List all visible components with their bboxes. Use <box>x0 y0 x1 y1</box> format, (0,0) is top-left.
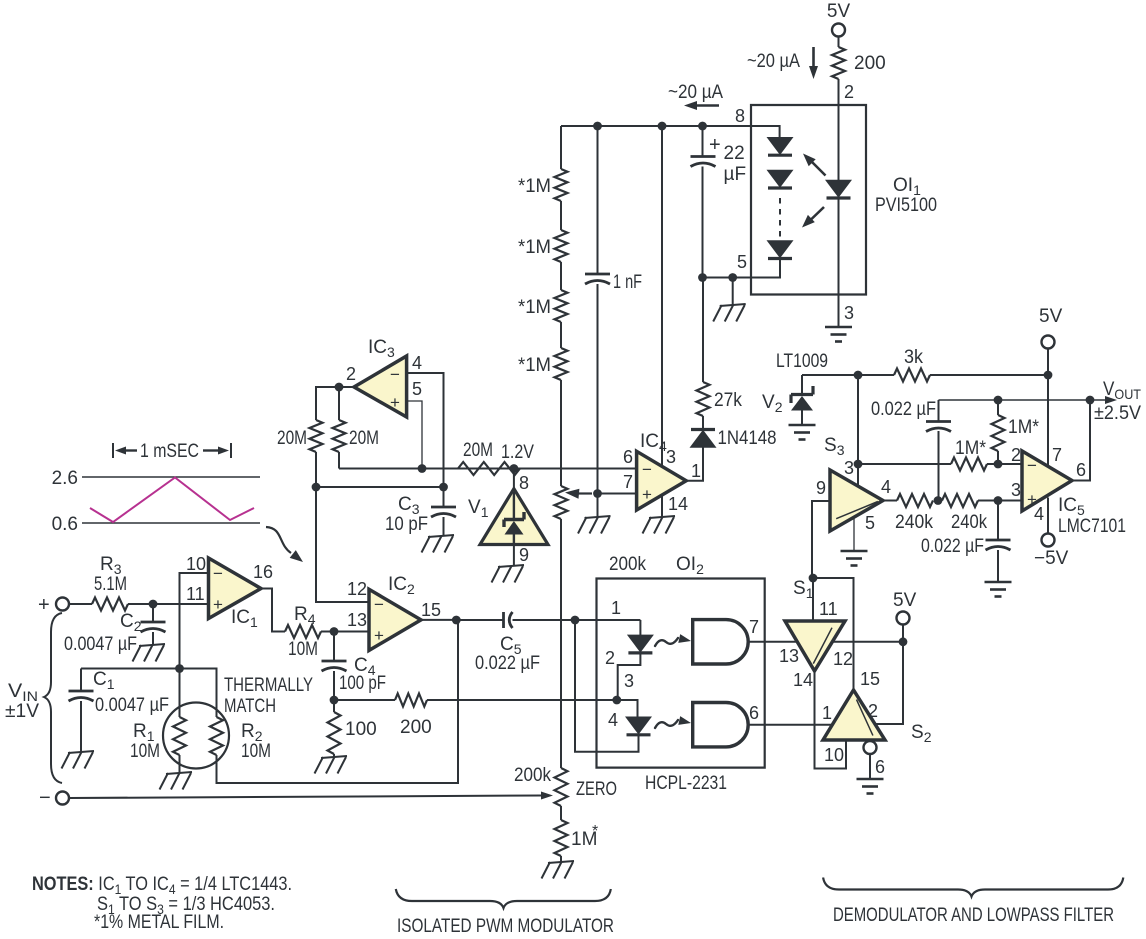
potentiometer 200k (triangle-wave trim) <box>555 486 593 519</box>
wire IC3 pin4 feedback <box>407 373 444 487</box>
resistor *1M (2nd) <box>518 230 568 262</box>
svg-text:+: + <box>709 134 721 156</box>
svg-text:−5V: −5V <box>1034 548 1069 569</box>
pin label 3 <box>624 671 634 691</box>
svg-text:0.022 µF: 0.022 µF <box>921 536 984 557</box>
wire C5 to OI2 pin 1 <box>513 619 641 621</box>
node Vout-1M* <box>994 396 1003 405</box>
svg-text:*1% METAL FILM.: *1% METAL FILM. <box>94 912 224 933</box>
svg-text:5: 5 <box>737 252 747 272</box>
pin label 5 <box>737 252 747 272</box>
resistor 3k <box>858 347 1048 382</box>
op-amp IC4 <box>623 431 686 510</box>
svg-text:4: 4 <box>881 477 891 497</box>
wire IC1 output to R4 <box>261 589 285 632</box>
svg-text:2: 2 <box>605 648 615 668</box>
wire pin5 node to 22uF node <box>703 277 733 279</box>
light arrow down-left <box>802 207 824 228</box>
resistor 1M* (vertical) <box>992 400 1040 464</box>
wire pot to ZERO pot <box>560 519 562 768</box>
input brace VIN <box>44 613 62 783</box>
wire diode to 27k <box>702 416 704 429</box>
ground (slant) at IC4 pin 14 <box>643 516 676 534</box>
ground (slant) at C1 <box>62 751 95 769</box>
ground (bar) at S3 pin 5 <box>841 551 868 566</box>
svg-text:+: + <box>213 595 223 614</box>
resistor 27k <box>697 382 743 416</box>
svg-text:16: 16 <box>253 562 273 582</box>
wire S1 pin 14 to S2 pin 10 <box>815 671 847 769</box>
capacitor C1 0.0047 µF <box>69 669 170 753</box>
node S3pin9-S1 <box>809 574 818 583</box>
label ISOLATED PWM MODULATOR <box>397 916 614 937</box>
label 200k (above OI2) <box>609 554 646 575</box>
svg-text:13: 13 <box>779 646 799 666</box>
wire top rail into OI1 (pin 8) to photo-stack <box>561 126 780 137</box>
svg-text:+: + <box>390 393 400 412</box>
label LT1009 <box>776 351 828 372</box>
wire node to C5 <box>456 619 503 621</box>
wire IC5 pin 4 to -5V <box>1034 498 1048 534</box>
svg-text:5: 5 <box>412 379 422 399</box>
wire V2 to 3k rail <box>802 374 858 376</box>
svg-text:5V: 5V <box>1039 306 1063 327</box>
svg-text:2: 2 <box>844 82 854 102</box>
svg-text:240k: 240k <box>895 512 933 533</box>
label DEMODULATOR AND LOWPASS FILTER <box>833 905 1114 926</box>
svg-text:7: 7 <box>1052 445 1062 465</box>
capacitor C5 0.022 µF <box>475 612 540 674</box>
svg-text:~20 µA: ~20 µA <box>668 82 723 103</box>
waveform lower bound 0.6 <box>52 514 260 535</box>
label THERMALLY MATCH <box>224 675 313 717</box>
inverter bubble S2 pin 6 <box>864 741 877 754</box>
diode 1N4148 <box>691 428 777 449</box>
svg-text:12: 12 <box>833 649 853 669</box>
optocoupler OI1 box <box>751 105 866 295</box>
wire − terminal to ZERO pot <box>69 792 553 800</box>
node 20M-left bottom <box>312 483 321 492</box>
svg-text:8: 8 <box>519 473 529 493</box>
wire 200-node to OI2 pin 3 <box>334 699 395 701</box>
power terminal 5V (IC5) <box>1039 306 1063 375</box>
resistor 1M* (horizontal) <box>951 438 987 471</box>
wire R4 to node <box>321 631 334 633</box>
svg-text:*: * <box>592 823 598 840</box>
svg-text:µF: µF <box>724 164 747 185</box>
svg-text:0.022 µF: 0.022 µF <box>475 653 540 674</box>
svg-text:1M*: 1M* <box>1008 417 1040 438</box>
ground (slant) at 100 <box>315 756 348 774</box>
svg-text:HCPL-2231: HCPL-2231 <box>645 773 727 794</box>
wire pin3 node to LED2 <box>617 700 638 717</box>
photovoltaic diode D3 in OI1 <box>768 241 792 259</box>
ground (slant) at C2 <box>133 644 166 662</box>
svg-text:15: 15 <box>421 600 441 620</box>
svg-text:9: 9 <box>519 545 529 565</box>
pin label 10 <box>824 745 844 765</box>
svg-text:10: 10 <box>824 745 844 765</box>
svg-text:3: 3 <box>844 458 854 478</box>
svg-text:200k: 200k <box>609 554 646 575</box>
triangle waveform (magenta) <box>90 478 254 523</box>
analog switch S1 (pins 11,13,12,14) <box>785 578 853 690</box>
wire S1 pin 11 <box>812 578 814 621</box>
svg-text:1M*: 1M* <box>955 438 987 459</box>
svg-text:4: 4 <box>412 353 422 373</box>
svg-text:14: 14 <box>668 494 688 514</box>
wire 1M* to ground <box>560 856 562 862</box>
svg-text:0.6: 0.6 <box>52 514 78 535</box>
svg-text:10 pF: 10 pF <box>385 514 428 535</box>
svg-text:3: 3 <box>844 303 854 323</box>
wire *1M chain to potentiometer <box>560 380 562 486</box>
svg-text:−: − <box>642 460 652 479</box>
node S3 pin 3 <box>844 458 862 478</box>
wire gate2 out to S2 pin 1 <box>748 703 833 725</box>
op-amp IC1 <box>186 554 273 630</box>
svg-text:5V: 5V <box>893 590 917 611</box>
resistor *1M (4th) <box>518 348 568 380</box>
wire 5V node down to S2 pin 2 <box>875 642 904 724</box>
node R3-C2 <box>149 600 158 609</box>
wire rail down-left corner to *1M chain <box>560 126 562 169</box>
current label ~20 µA with left arrow <box>668 82 723 110</box>
pin label 4 <box>608 710 618 730</box>
node 3k-S3 <box>854 371 863 380</box>
svg-text:−: − <box>390 365 400 384</box>
label OI2 <box>676 554 704 577</box>
svg-text:0.022 µF: 0.022 µF <box>871 399 936 420</box>
thermally-match circle <box>163 703 229 769</box>
curved arrow waveform to modulator <box>266 527 303 562</box>
wire wiper node to IC4 pin 7 <box>598 493 637 495</box>
node rail-22uF <box>698 122 707 131</box>
thermistor R1 10M <box>130 669 186 774</box>
led OI1 (pins 2-3) <box>827 105 851 295</box>
brace demodulator <box>823 878 1123 897</box>
wire R2 bottom feedback <box>217 620 459 783</box>
power terminal -5V <box>1034 534 1069 570</box>
wire 5V to resistor 200 <box>838 37 840 48</box>
input terminal − <box>39 787 69 809</box>
node R4-C4 (IC2 pin13) <box>330 627 339 636</box>
wire IC2 output to C5 <box>421 619 456 621</box>
svg-text:~20 µA: ~20 µA <box>747 51 800 72</box>
resistor 20M (IC3 feedback) <box>333 387 380 469</box>
node C3 top <box>439 483 448 492</box>
svg-text:1.2V: 1.2V <box>501 442 534 463</box>
svg-text:15: 15 <box>860 669 880 689</box>
resistor 20M (left) <box>277 420 323 452</box>
svg-text:7: 7 <box>749 617 759 637</box>
ground (slant) at R1 <box>160 772 193 790</box>
svg-text:9: 9 <box>816 478 826 498</box>
wire IC4 pin 14 to ground <box>662 494 688 517</box>
gate 2 (OI2 output, pin 6) <box>693 703 759 747</box>
capacitor 0.022 µF (top) <box>871 399 951 501</box>
node 240k junction <box>934 496 943 505</box>
node Vout-IC5out <box>1086 396 1095 405</box>
svg-text:100 pF: 100 pF <box>339 673 386 694</box>
svg-text:20M: 20M <box>349 428 379 449</box>
svg-text:3: 3 <box>666 447 676 467</box>
wire C1 top <box>81 668 180 670</box>
wire + terminal to R3 <box>69 603 92 605</box>
analog switch S2 (pins 15,1,2,10) <box>823 690 932 745</box>
svg-text:1 mSEC: 1 mSEC <box>140 441 199 462</box>
node IC2 out <box>452 616 461 625</box>
svg-text:MATCH: MATCH <box>224 696 276 717</box>
svg-text:*1M: *1M <box>518 355 551 376</box>
svg-text:±1V: ±1V <box>5 701 39 722</box>
node C4-100-200 <box>330 696 339 705</box>
label VIN ±1V <box>5 681 39 722</box>
wire IC4 pin 3 from rail <box>662 126 676 467</box>
power terminal 5V (switches) <box>893 590 917 642</box>
photovoltaic diode D1 in OI1 <box>768 138 792 156</box>
resistor *1M (1st) <box>518 169 568 201</box>
wire Vout line <box>939 396 1118 404</box>
svg-text:4: 4 <box>608 710 618 730</box>
svg-text:ZERO: ZERO <box>576 779 617 800</box>
svg-text:2.6: 2.6 <box>52 468 78 489</box>
op-amp IC5 <box>1011 445 1126 537</box>
wire node down to IC2 pin 12 <box>316 487 369 602</box>
ground (slant) at 1M* <box>542 861 575 879</box>
power terminal 5V (top, OI1 section) <box>827 1 851 37</box>
svg-text:*1M: *1M <box>518 297 551 318</box>
node IC3 output <box>335 383 344 392</box>
svg-text:22: 22 <box>724 143 745 164</box>
svg-text:10: 10 <box>186 554 206 574</box>
resistor *1M (3rd) <box>518 290 568 322</box>
wire S3 pin3 to 1M* <box>858 463 951 465</box>
svg-text:1N4148: 1N4148 <box>718 428 777 449</box>
wire node to R2 top <box>180 669 217 718</box>
svg-text:0.0047 µF: 0.0047 µF <box>95 695 169 716</box>
svg-text:*1M: *1M <box>518 176 551 197</box>
wire 200 to OI2 pin3 node <box>427 699 617 701</box>
svg-text:200: 200 <box>400 717 432 738</box>
node wiper-1nF <box>593 489 602 498</box>
wire node to IC2 pin 13 <box>334 631 369 633</box>
ground (bar) at bottom 0.022µF <box>985 582 1012 597</box>
wire S3 pin9 junction to S2 pin 15 <box>813 578 854 690</box>
resistor 200 <box>395 694 432 739</box>
svg-text:−: − <box>1027 456 1037 475</box>
op-amp IC3 (left-pointing) <box>346 337 422 417</box>
svg-text:ISOLATED PWM MODULATOR: ISOLATED PWM MODULATOR <box>397 916 614 937</box>
svg-text:5: 5 <box>865 513 875 533</box>
svg-text:PVI5100: PVI5100 <box>875 195 937 216</box>
wire S3 pin4 to 240k <box>883 500 897 502</box>
svg-text:240k: 240k <box>951 512 987 533</box>
svg-text:LT1009: LT1009 <box>776 351 828 372</box>
svg-text:4: 4 <box>1034 504 1044 524</box>
node rail-1nF <box>593 122 602 131</box>
pin label 8 <box>735 106 745 126</box>
svg-text:10M: 10M <box>130 741 160 762</box>
thermistor R2 10M <box>210 717 271 762</box>
label OI1 PVI5100 <box>875 175 937 216</box>
capacitor C2 0.0047 µF <box>64 604 166 655</box>
wire between *1M 2-3 <box>560 262 562 290</box>
capacitor 22 µF <box>691 126 747 278</box>
svg-text:+: + <box>38 594 50 616</box>
svg-text:+: + <box>642 485 652 504</box>
svg-text:−: − <box>39 787 51 809</box>
svg-text:27k: 27k <box>714 390 742 411</box>
svg-text:200: 200 <box>854 53 886 74</box>
ground (bar) at S2 pin 6 <box>857 779 884 794</box>
wire gate1 out to S1 pin 13 <box>748 642 799 666</box>
svg-text:5.1M: 5.1M <box>94 574 127 595</box>
wire 1M* to IC5 pin 2 <box>987 463 1022 465</box>
svg-text:2: 2 <box>346 364 356 384</box>
node OI2 pin3 <box>612 696 621 705</box>
node 3k-5V-IC5pin7 <box>1044 371 1053 380</box>
ground (slant) at OI1 pin 5 <box>713 278 746 322</box>
svg-text:1: 1 <box>611 598 621 618</box>
shunt reference V1 (pins 8-9) <box>468 469 548 567</box>
wire IC1 pin 10 feedback <box>180 573 209 669</box>
gate 1 (OI2 output, pin 7) <box>693 617 759 664</box>
svg-text:1 nF: 1 nF <box>613 272 642 293</box>
brace isolated pwm modulator <box>396 889 611 908</box>
wire IC4 output to diode <box>686 447 703 481</box>
node pin10-line R1 <box>175 664 184 673</box>
wire IC5 output to Vout <box>1072 400 1090 481</box>
node pin5-gnd <box>728 273 737 282</box>
wire D3 to pin 5 <box>733 259 780 278</box>
svg-text:14: 14 <box>793 670 813 690</box>
resistor 1M* <box>555 820 599 856</box>
label HCPL-2231 <box>645 773 727 794</box>
pin label 2 <box>605 648 615 668</box>
svg-text:6: 6 <box>749 703 759 723</box>
svg-text:10M: 10M <box>241 741 271 762</box>
node 1.2V-V1 <box>501 442 534 473</box>
svg-text:LMC7101: LMC7101 <box>1058 516 1126 537</box>
node 1.2V-IC3pin5 <box>418 464 427 473</box>
svg-text:*1M: *1M <box>518 237 551 258</box>
wire R3 to node <box>128 603 153 605</box>
node C5-LED2 branch <box>571 616 580 625</box>
svg-text:0.0047 µF: 0.0047 µF <box>64 634 137 655</box>
svg-text:5V: 5V <box>827 1 851 22</box>
node IC5 pin2 <box>994 460 1003 469</box>
optocoupler OI2 box <box>597 579 765 768</box>
wire IC3 output <box>316 387 354 420</box>
resistor 240k (first) <box>895 494 933 533</box>
input terminal + <box>38 594 69 616</box>
potentiometer 200k ZERO <box>514 765 617 806</box>
light arrow up-left <box>803 154 826 176</box>
svg-text:3k: 3k <box>904 347 923 368</box>
dashed link in diode stack <box>779 198 781 238</box>
ground (slant) at C3 <box>422 535 455 553</box>
svg-text:6: 6 <box>1076 460 1086 480</box>
svg-text:1: 1 <box>691 461 701 481</box>
wire bubble to ground <box>870 754 885 779</box>
wire 200 to OI1 pin 2 <box>839 79 855 105</box>
node rail-662 <box>658 122 667 131</box>
capacitor 0.022 µF (bottom) <box>921 501 1011 583</box>
svg-text:3: 3 <box>1011 480 1021 500</box>
wire OI1 pin 3 to ground <box>839 295 855 328</box>
capacitor C3 10 pF <box>385 487 456 536</box>
timing marks 1 mSEC <box>113 441 231 462</box>
led OI2 input 1 <box>618 620 653 699</box>
wire S3 pin 5 to ground <box>853 517 855 551</box>
svg-text:20M: 20M <box>463 440 493 461</box>
wire node to C3 node <box>316 486 444 488</box>
resistor R3 5.1M <box>92 554 128 611</box>
svg-text:11: 11 <box>819 599 838 619</box>
light squiggle 2 <box>655 716 691 728</box>
ground (bar) at OI1 pin 3 <box>825 327 852 342</box>
waveform upper bound 2.6 <box>52 468 260 489</box>
photovoltaic diode D2 in OI1 <box>768 171 792 189</box>
wire between *1M 1-2 <box>560 201 562 230</box>
pin label 1 <box>611 598 621 618</box>
resistor 20M (horizontal) <box>458 440 520 475</box>
svg-text:+: + <box>374 626 384 645</box>
svg-text:10M: 10M <box>288 639 318 660</box>
zener V2 LT1009 <box>762 375 813 425</box>
svg-text:11: 11 <box>186 584 205 604</box>
label VOUT ±2.5V <box>1094 379 1141 424</box>
wire S3 pin 9 <box>812 501 830 578</box>
svg-text:−: − <box>374 595 384 614</box>
light squiggle 1 <box>655 634 691 646</box>
op-amp IC2 <box>347 574 441 650</box>
svg-text:6: 6 <box>875 757 885 777</box>
resistor R4 10M <box>285 604 321 660</box>
wire branch down to LED2 bottom <box>575 620 639 752</box>
svg-text:3: 3 <box>624 671 634 691</box>
analog switch S3 (pins 9,3,4,5) <box>816 435 891 533</box>
pin label 15 <box>860 669 880 689</box>
wire 27k to 22uF node <box>702 278 705 383</box>
resistor 100 <box>328 700 377 757</box>
svg-text:20M: 20M <box>277 428 307 449</box>
node 22uF bottom <box>698 273 707 282</box>
wire ZERO to 1M* <box>560 806 562 820</box>
ground (bar) at V2 <box>789 425 816 440</box>
wire IC3 pin5 <box>407 401 422 469</box>
resistor 240k (second) <box>938 494 1022 533</box>
wire 1.2V rail <box>339 468 637 470</box>
svg-text:2: 2 <box>1011 445 1021 465</box>
ground (slant) at V1 pin 9 <box>492 565 525 583</box>
svg-text:200k: 200k <box>514 765 551 786</box>
wire 20M-left to node <box>315 452 317 487</box>
svg-text:100: 100 <box>345 719 377 740</box>
wire S3 pin 3 from 3k node <box>857 375 859 487</box>
svg-text:8: 8 <box>735 106 745 126</box>
resistor 200 <box>832 47 886 79</box>
wire node to IC1 pin 11 <box>153 603 209 605</box>
svg-text:THERMALLY: THERMALLY <box>224 675 313 696</box>
wire between *1M 3-4 <box>560 322 562 348</box>
ground (slant) below wiper node <box>578 494 611 534</box>
svg-text:DEMODULATOR AND LOWPASS FILTER: DEMODULATOR AND LOWPASS FILTER <box>833 905 1114 926</box>
svg-text:12: 12 <box>347 579 367 599</box>
svg-text:7: 7 <box>623 472 633 492</box>
svg-text:13: 13 <box>347 610 367 630</box>
